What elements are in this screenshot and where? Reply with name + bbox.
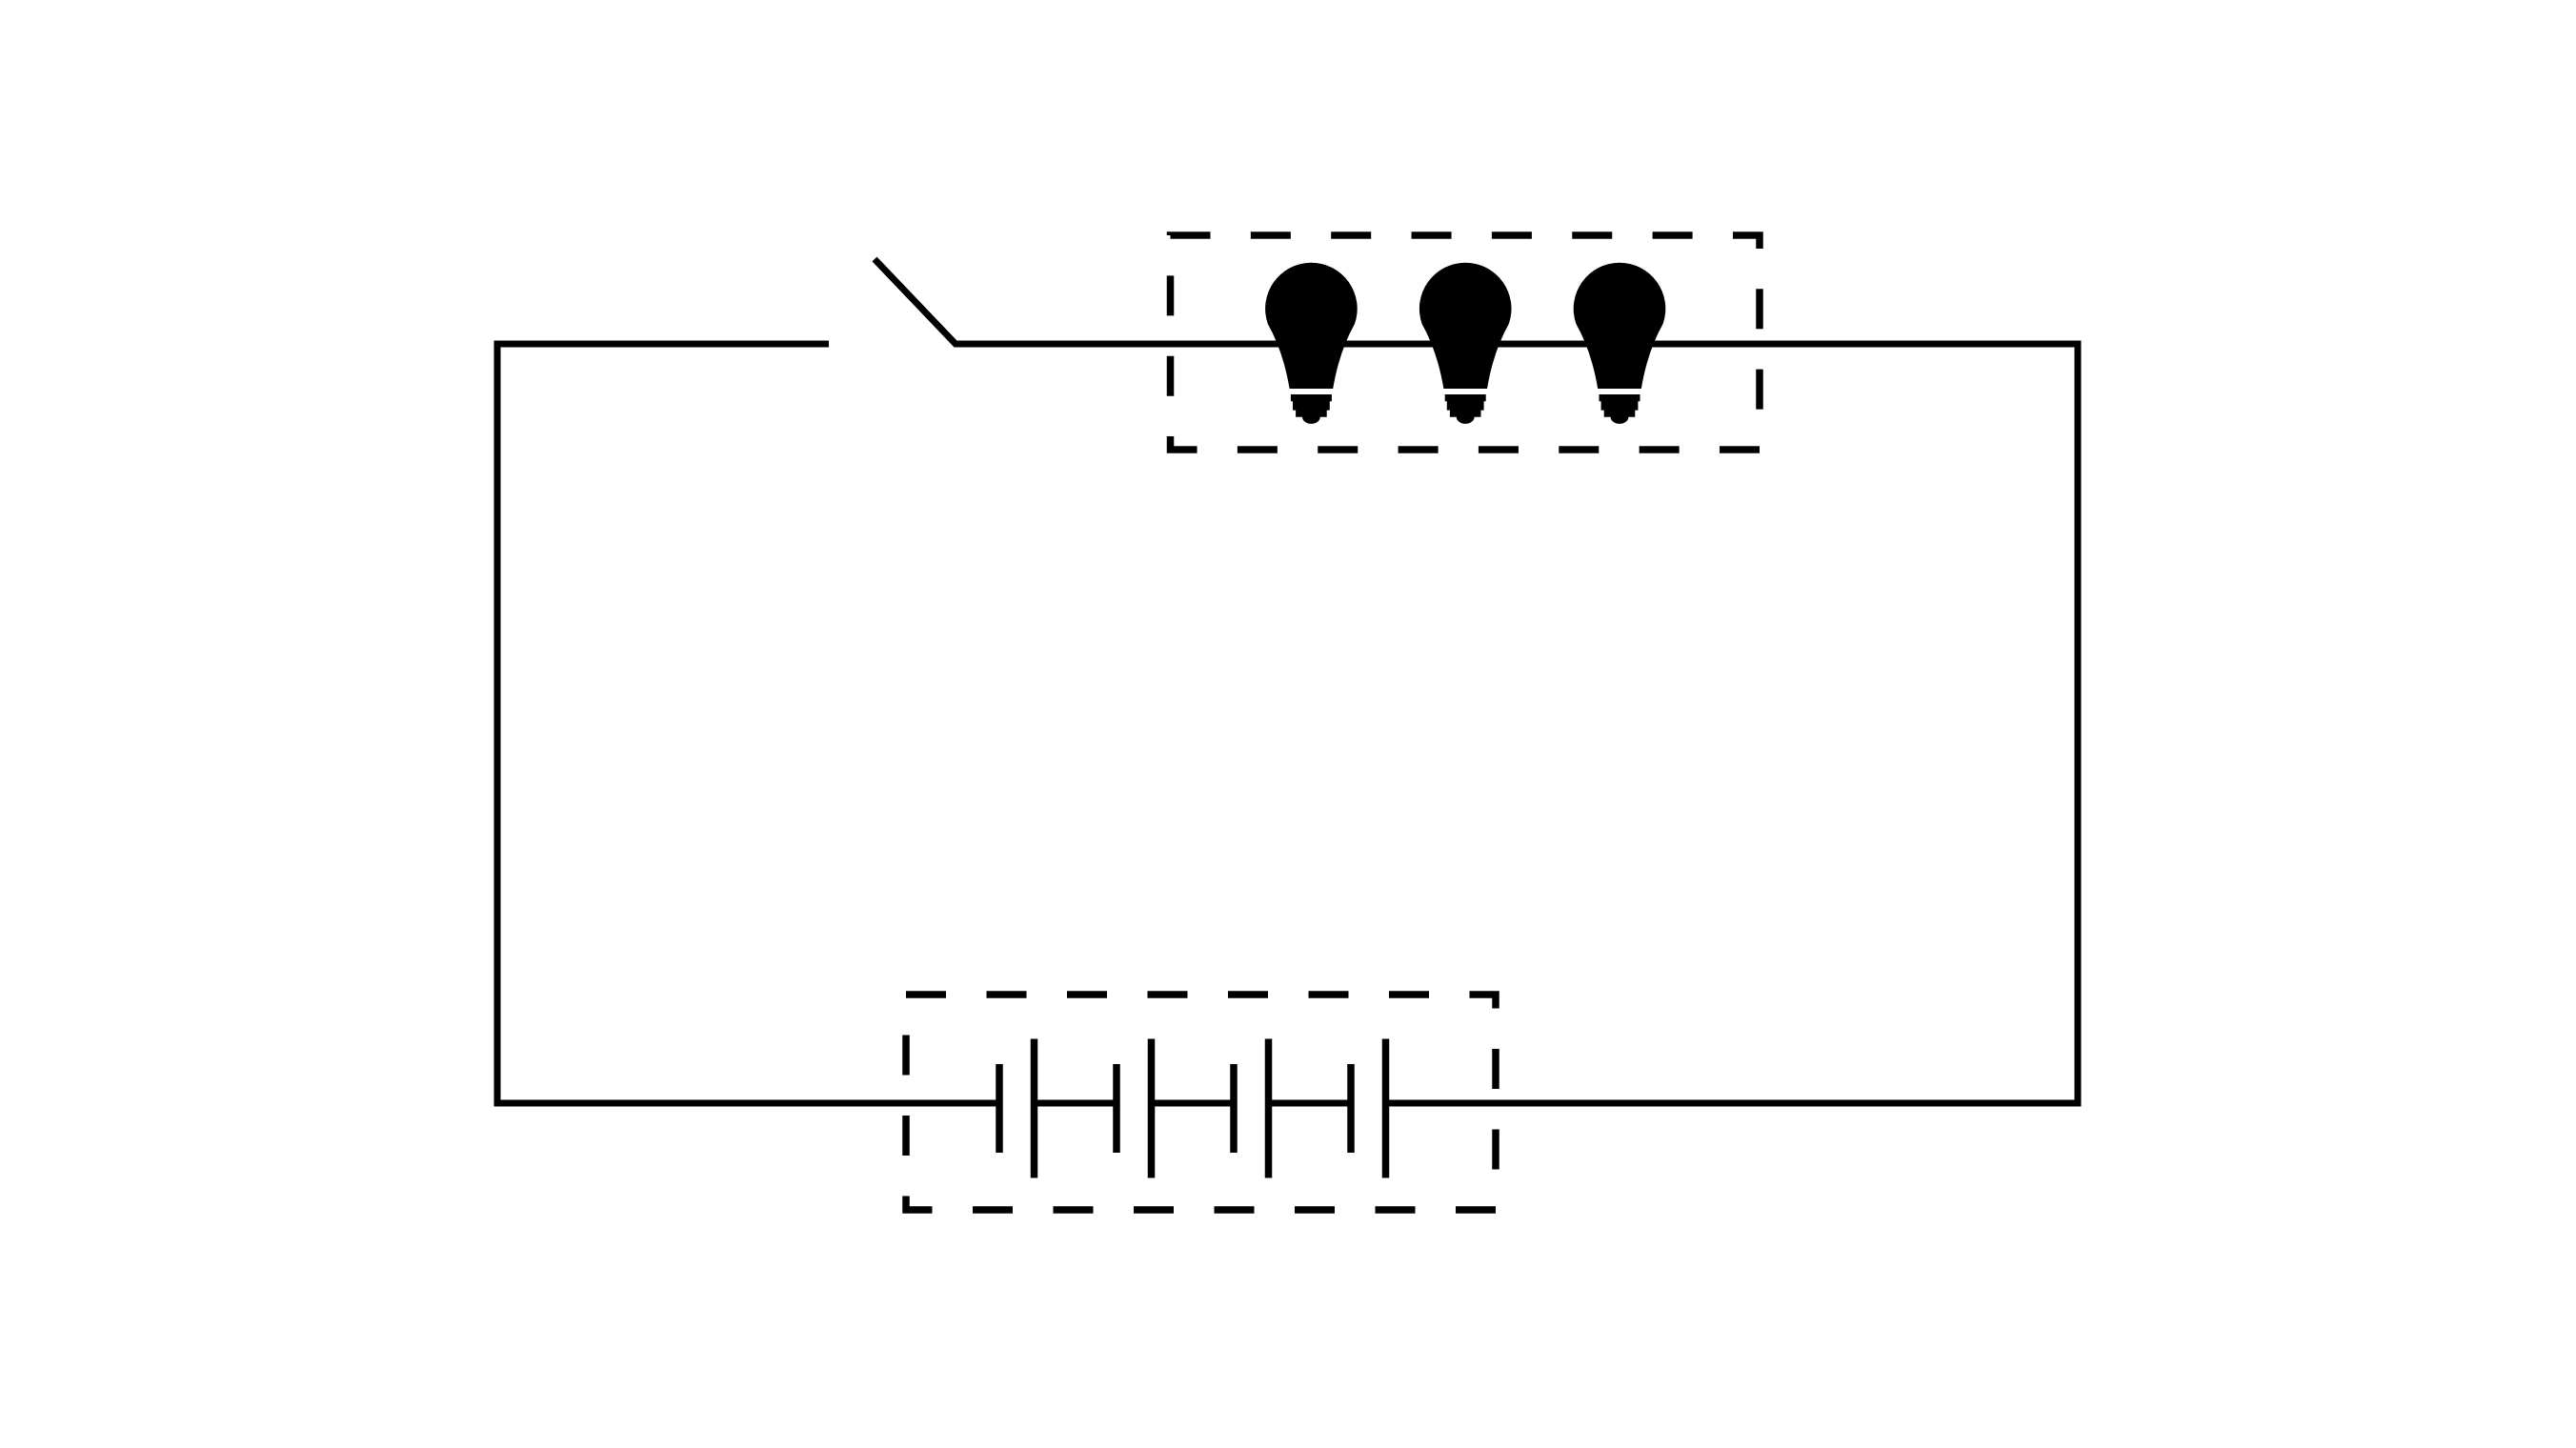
lamp L2: [1419, 263, 1512, 424]
battery pack enclosure (dashed box): [906, 995, 1496, 1210]
battery cell B3 positive plate: [1265, 1039, 1273, 1178]
battery cell B1 negative plate: [996, 1064, 1003, 1153]
battery cell B1 positive plate: [1031, 1039, 1038, 1178]
battery cell B2 positive plate: [1148, 1039, 1156, 1178]
battery cell B4 negative plate: [1347, 1064, 1355, 1153]
wire: link B1 positive to B2 negative: [1035, 1100, 1117, 1107]
lamp group enclosure (dashed box): [1171, 235, 1761, 450]
wire: top-left segment, left side, bottom-left segment (to battery negative plate): [497, 344, 999, 1103]
battery cell B3 negative plate: [1230, 1064, 1238, 1153]
lamp L3: [1574, 263, 1666, 424]
battery cell B2 negative plate: [1113, 1064, 1120, 1153]
switch S1 (open blade) joined to wire: top segment through lamps, right side, bottom-right segment (to battery positive plate): [875, 259, 2078, 1103]
wire: link B3 positive to B4 negative: [1269, 1100, 1352, 1107]
lamp L1: [1265, 263, 1358, 424]
wire: link B2 positive to B3 negative: [1152, 1100, 1235, 1107]
battery cell B4 positive plate: [1382, 1039, 1390, 1178]
